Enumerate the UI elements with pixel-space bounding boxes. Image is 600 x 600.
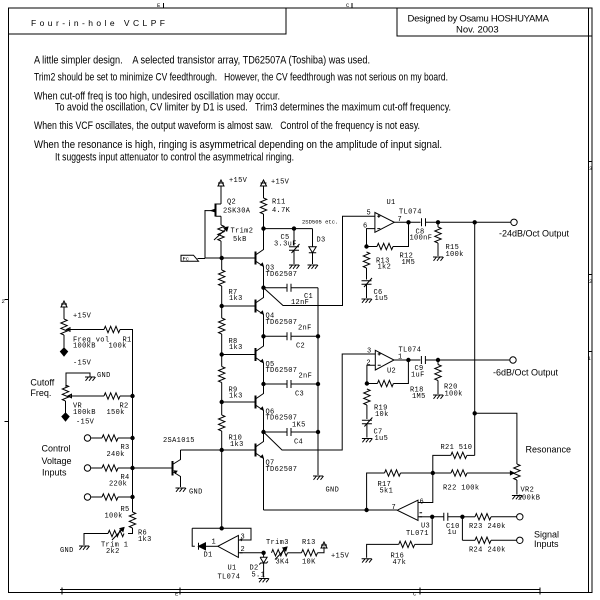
node bias3 / wire to Q5 base — [221, 334, 223, 367]
wire U2 inv stub — [367, 365, 375, 383]
svg-text:TL074: TL074 — [218, 574, 241, 582]
svg-text:4.7K: 4.7K — [272, 207, 291, 215]
border zone ticks right — [589, 162, 593, 352]
CV input jack 3 — [84, 494, 90, 500]
ground pot2 — [85, 377, 96, 381]
resistor R17 5k1 feedback — [401, 472, 433, 474]
wire bias top to C5 and D3 — [264, 228, 313, 230]
svg-text:1k3: 1k3 — [230, 441, 244, 449]
node ladder stage2 — [262, 335, 265, 338]
resistor R8 1k3 — [219, 318, 225, 334]
svg-text:3K4: 3K4 — [276, 559, 290, 567]
svg-text:VR2: VR2 — [521, 487, 535, 495]
resistor R13 10K — [302, 550, 318, 556]
wire tap -24dB to U1 — [264, 216, 375, 305]
node CV limit — [262, 551, 265, 554]
wire Trim1 to ground — [84, 534, 108, 546]
svg-text:1u5: 1u5 — [375, 295, 389, 303]
resistor R16 47k — [415, 543, 433, 545]
border zone ticks bottom — [62, 588, 540, 595]
svg-text:5.1: 5.1 — [252, 572, 266, 580]
svg-text:GND: GND — [326, 487, 340, 495]
wire cap common rail — [317, 288, 319, 475]
svg-text:C2: C2 — [296, 343, 305, 351]
resistor R10 1k3 — [219, 415, 225, 431]
node U3 inv input — [431, 471, 434, 474]
svg-text:Trim2 should be set to minimiz: Trim2 should be set to minimize CV feedt… — [34, 72, 448, 84]
wire Trim3 to R13 — [288, 552, 302, 554]
svg-text:-15V: -15V — [76, 419, 95, 427]
svg-text:1: 1 — [398, 354, 403, 362]
resistor R20 100k — [437, 360, 439, 365]
wire R2 to CV rail — [120, 395, 133, 397]
wire U3 inv stub — [418, 516, 432, 518]
capacitor C8 100nF — [422, 218, 439, 226]
svg-text:A little simpler design. A: A little simpler design. A selected tran… — [34, 55, 370, 67]
transistor Q1 2SA1015 — [173, 450, 181, 487]
wire Trim2 to Fc node — [220, 241, 222, 258]
node ladder stage4 — [262, 430, 265, 433]
ground C5 — [289, 265, 300, 269]
svg-text:7: 7 — [398, 216, 403, 224]
resistor R4 220k — [102, 465, 118, 471]
wire -24dB output line — [438, 221, 511, 223]
wire pot1 wiper to R1 — [70, 329, 104, 331]
svg-text:2nF: 2nF — [298, 325, 312, 333]
svg-text:Inputs: Inputs — [534, 539, 559, 549]
trimmer Trim3 — [272, 547, 288, 560]
wire jack2 to R4 — [91, 467, 102, 469]
wire ladder bottom to U3 output — [264, 509, 398, 511]
potentiometer Freq vol 100kB — [61, 319, 73, 335]
svg-text:U2: U2 — [387, 368, 396, 376]
wire node down to R21 — [474, 413, 476, 455]
diode D1 — [199, 543, 218, 550]
svg-text:When this VCF oscillates, the: When this VCF oscillates, the output wav… — [34, 120, 420, 132]
power +15V Q2 — [218, 180, 224, 191]
resistor R7 1k3 — [219, 270, 225, 286]
resistor R13 1k2 — [363, 252, 369, 268]
resistor R18 1M5 feedback — [367, 383, 378, 385]
wire R11 to bias top node — [263, 214, 265, 229]
svg-text:C4: C4 — [294, 439, 303, 447]
capacitor C10 1u — [432, 513, 462, 521]
wire CV summing rail — [132, 396, 134, 512]
wire VR2 bottom to ground — [516, 480, 518, 495]
svg-text:47k: 47k — [393, 559, 407, 567]
svg-text:1k3: 1k3 — [229, 295, 243, 303]
wire Q2 source to Trim2 — [220, 216, 222, 225]
svg-text:R23: R23 — [469, 523, 483, 531]
svg-text:+15V: +15V — [271, 179, 290, 187]
node signal mix — [431, 515, 434, 518]
transistor Q7 TD62507 — [256, 432, 264, 510]
wire Fc node to Q3 base — [222, 257, 256, 259]
trimmer Trim2 5kB — [214, 225, 228, 241]
wire R3 to rail — [118, 437, 133, 439]
svg-text:2: 2 — [241, 546, 246, 554]
resistor R1 100k — [104, 326, 120, 332]
svg-text:240k: 240k — [488, 547, 506, 555]
svg-text:3: 3 — [589, 165, 592, 172]
wire rail to Q1 base — [133, 467, 172, 469]
power +15V pot1 — [61, 301, 67, 312]
svg-text:100kB: 100kB — [73, 409, 96, 417]
svg-text:Q2: Q2 — [227, 199, 236, 207]
ground Trim1 — [79, 546, 90, 550]
potentiometer VR 100kB (Cutoff Freq) — [62, 385, 74, 401]
border zone tick top C — [351, 3, 353, 8]
jack -24dB output — [511, 219, 517, 225]
svg-text:Designed by Osamu HOSHUYAMA: Designed by Osamu HOSHUYAMA — [408, 13, 550, 24]
svg-text:1u5: 1u5 — [375, 435, 389, 443]
op-amp U3 TL071 resonance mixer — [397, 500, 422, 520]
resistor R3 240k — [102, 435, 118, 441]
wire node to VR2 top — [475, 413, 517, 464]
resistor R5 100k — [102, 494, 118, 500]
svg-text:2: 2 — [2, 298, 5, 305]
svg-text:100k: 100k — [446, 251, 464, 259]
svg-text:1k2: 1k2 — [378, 264, 392, 272]
svg-text:-15V: -15V — [73, 360, 92, 368]
ground R16 — [362, 559, 373, 563]
svg-text:100kB: 100kB — [518, 495, 541, 503]
jack signal input 2 — [517, 537, 523, 543]
svg-text:6: 6 — [420, 499, 425, 507]
svg-text:100k: 100k — [109, 343, 127, 351]
svg-text:R21 510: R21 510 — [441, 444, 473, 452]
ground VR2 — [512, 496, 523, 500]
svg-text:-24dB/Oct Output: -24dB/Oct Output — [499, 229, 570, 239]
svg-text:7: 7 — [392, 504, 397, 512]
svg-text:2nF: 2nF — [299, 373, 313, 381]
wire U2 output — [394, 359, 420, 361]
svg-text:100k: 100k — [445, 391, 463, 399]
svg-text:12nF: 12nF — [291, 299, 309, 307]
designed-by box — [397, 8, 592, 36]
resistor R22 100k wiper — [467, 472, 509, 474]
svg-text:Resonance: Resonance — [526, 445, 572, 455]
capacitor C5 3.3uF — [293, 229, 295, 246]
node resonance branch — [473, 412, 476, 415]
node bias2 / wire to Q4 base — [221, 286, 223, 318]
svg-text:TD62507: TD62507 — [266, 319, 298, 327]
wire pot2 wiper to R2 — [72, 395, 105, 397]
node CV loop top — [220, 527, 223, 530]
svg-text:5kB: 5kB — [233, 236, 247, 244]
svg-text:10k: 10k — [375, 411, 389, 419]
svg-text:+15V: +15V — [331, 553, 350, 561]
svg-text:10K: 10K — [302, 559, 316, 567]
svg-text:Signal: Signal — [534, 530, 559, 540]
svg-text:C3: C3 — [295, 391, 304, 399]
wire bias node down to CV opamp loop — [221, 450, 223, 528]
wire R4 to rail — [118, 467, 133, 469]
svg-text:U1: U1 — [387, 199, 396, 207]
wire R5 to rail — [118, 496, 133, 498]
wire Q2 gate down to Fc node — [204, 210, 206, 258]
svg-text:U1: U1 — [228, 565, 237, 573]
svg-text:Freq.: Freq. — [30, 388, 51, 398]
svg-text:Fc: Fc — [183, 255, 190, 262]
transistor Q3 TD62507 — [256, 229, 264, 288]
trimmer Trim1 2k2 — [108, 528, 124, 541]
svg-text:1M5: 1M5 — [402, 259, 416, 267]
svg-text:TD62507: TD62507 — [266, 271, 298, 279]
svg-text:100nF: 100nF — [410, 235, 433, 243]
svg-text:Inputs: Inputs — [42, 468, 67, 478]
wire Fc node to R7 — [221, 258, 223, 270]
svg-text:Trim2: Trim2 — [231, 228, 254, 236]
wire R13 to +15V — [318, 547, 325, 553]
border zone ticks left — [5, 300, 9, 422]
resistor R2 150k — [104, 393, 120, 399]
resistor R24 240k — [462, 539, 475, 541]
ground C6 — [362, 299, 373, 303]
capacitor C3 2nF — [264, 380, 319, 388]
svg-text:To avoid the oscillation, CV l: To avoid the oscillation, CV limiter by … — [55, 102, 451, 114]
wire U1 output — [394, 221, 420, 223]
svg-text:R22 100k: R22 100k — [443, 485, 479, 493]
svg-text:5: 5 — [367, 210, 372, 218]
capacitor C1 12nF — [264, 284, 319, 292]
capacitor C6 1u5 — [362, 278, 373, 287]
ground D3 — [308, 265, 319, 269]
svg-text:1M5: 1M5 — [412, 393, 426, 401]
title box — [9, 9, 286, 35]
resistor R15 100k — [437, 222, 439, 227]
power -15V pot2 — [65, 401, 67, 412]
svg-text:GND: GND — [97, 372, 111, 380]
svg-text:2SA1015: 2SA1015 — [163, 437, 195, 445]
node signal split — [461, 515, 464, 518]
svg-text:R11: R11 — [272, 199, 286, 207]
svg-text:D1: D1 — [204, 552, 213, 560]
svg-text:3.3uF: 3.3uF — [274, 241, 297, 249]
node Fc junction — [205, 257, 222, 259]
resistor R21 510k — [467, 454, 475, 456]
node U2 feedback — [365, 382, 368, 385]
transistor Q2 2SK30A JFET — [205, 204, 222, 217]
svg-text:2SD505 etc.: 2SD505 etc. — [302, 219, 338, 226]
svg-text:3: 3 — [367, 347, 372, 355]
svg-text:R13: R13 — [302, 539, 316, 547]
transistor Q4 TD62507 — [256, 288, 264, 337]
border inner bottom line — [60, 589, 540, 591]
resistor R12 1M5 feedback — [367, 246, 378, 248]
wire Q1 collector to bias chain — [181, 449, 222, 451]
svg-text:TL071: TL071 — [406, 530, 429, 538]
resistor R6 1k3 — [129, 512, 135, 528]
transistor Q6 TD62507 — [256, 384, 264, 432]
border zone tick top E — [163, 3, 165, 8]
wire U1 inv stub — [367, 229, 375, 247]
svg-text:100kB: 100kB — [73, 343, 96, 351]
svg-text:1: 1 — [212, 539, 217, 547]
svg-text:3: 3 — [241, 534, 246, 542]
svg-text:Four-in-hole VCLPF: Four-in-hole VCLPF — [31, 18, 165, 28]
svg-text:TL074: TL074 — [399, 209, 422, 217]
node ladder stage3 — [262, 382, 265, 385]
resistor R9 1k3 — [219, 367, 225, 383]
wire -24dB to resonance vertical — [474, 222, 476, 413]
op-amp U1 TL074 (-24dB buffer) — [375, 213, 394, 233]
svg-text:When the resonance is high, ri: When the resonance is high, ringing is a… — [34, 139, 442, 151]
transistor Q5 TD62507 — [256, 336, 264, 384]
border inner right line — [588, 8, 590, 593]
node U3 output feedback — [365, 508, 368, 511]
CV input jack 2 — [84, 465, 90, 471]
capacitor C2 2nF — [264, 332, 319, 340]
svg-text:1uF: 1uF — [411, 372, 425, 380]
wire tap -6dB to U2 — [264, 354, 376, 450]
wire to R24 — [461, 517, 463, 541]
ground R15 — [433, 257, 444, 261]
svg-text:220k: 220k — [109, 480, 127, 488]
svg-text:R24: R24 — [469, 547, 483, 555]
svg-text:Voltage: Voltage — [42, 456, 72, 466]
CV input jack 1 — [84, 435, 90, 441]
svg-text:1u: 1u — [448, 529, 457, 537]
svg-text:2: 2 — [589, 278, 592, 285]
svg-text:1k3: 1k3 — [138, 536, 152, 544]
zener D2 5.1V — [263, 553, 265, 558]
svg-text:Trim3: Trim3 — [266, 539, 289, 547]
svg-text:GND: GND — [189, 489, 203, 497]
wire U3 inv node down to R16 — [431, 517, 433, 545]
svg-text:+15V: +15V — [73, 313, 92, 321]
capacitor C9 1uF — [421, 356, 438, 364]
svg-text:TD62507: TD62507 — [266, 367, 298, 375]
ground D2 — [259, 579, 270, 583]
resistor R23 240k — [462, 516, 475, 518]
wire U4 inv to node — [238, 552, 263, 554]
node C8 out — [436, 221, 439, 224]
power +15V R11 — [261, 180, 267, 191]
wire U3 noninv stub up — [418, 473, 433, 503]
svg-text:It suggests input attenuator t: It suggests input attenuator to control … — [55, 152, 294, 164]
potentiometer VR2 100kB resonance — [509, 464, 520, 480]
svg-text:150k: 150k — [107, 409, 125, 417]
svg-text:1k3: 1k3 — [229, 344, 243, 352]
svg-text:D3: D3 — [317, 237, 326, 245]
svg-text:TD62507: TD62507 — [266, 466, 298, 474]
jack -6dB output — [510, 357, 516, 363]
ground C7 — [362, 439, 373, 443]
node cap rail junctions — [316, 335, 319, 338]
wire jack1 to R3 — [91, 437, 102, 439]
svg-text:240k: 240k — [107, 451, 125, 459]
svg-text:Nov. 2003: Nov. 2003 — [456, 24, 499, 35]
wire jack3 to R5 — [91, 496, 102, 498]
node bias top — [262, 227, 265, 230]
svg-text:+15V: +15V — [229, 177, 248, 185]
svg-text:1K5: 1K5 — [292, 422, 306, 430]
node C9 out — [436, 358, 439, 361]
capacitor C7 1u5 — [362, 418, 373, 427]
svg-text:100k: 100k — [105, 513, 123, 521]
node rail junctions — [131, 394, 134, 397]
wire pot2 top to GND — [66, 373, 90, 387]
power +15V R13 — [321, 542, 327, 553]
diode D3 — [312, 229, 314, 247]
wire CV loop top — [192, 528, 251, 540]
wire R1 to CV rail — [120, 330, 133, 397]
node bias5 / wire to Q7 base — [221, 431, 223, 450]
resistor R11 4.7K — [260, 198, 266, 214]
svg-text:1k3: 1k3 — [229, 393, 243, 401]
resistor R19 10k — [364, 389, 370, 405]
svg-text:GND: GND — [60, 547, 74, 555]
wire loop left down — [192, 528, 195, 546]
svg-text:2k2: 2k2 — [106, 548, 120, 556]
node U1 feedback — [365, 245, 368, 248]
wire -6dB output line — [438, 359, 510, 361]
ground R20 — [433, 395, 444, 399]
capacitor C4 — [264, 428, 319, 436]
svg-text:2SK30A: 2SK30A — [223, 208, 251, 216]
op-amp U2 TL074 (-6dB buffer) — [375, 350, 394, 370]
svg-text:Control: Control — [42, 444, 71, 454]
svg-text:6: 6 — [363, 223, 368, 231]
svg-text:2: 2 — [366, 360, 371, 368]
node ladder stage1 — [262, 286, 265, 289]
net flag Fc — [181, 255, 205, 261]
ground Q1 emitter — [176, 488, 187, 492]
svg-text:-6dB/Oct Output: -6dB/Oct Output — [493, 368, 559, 378]
op-amp U1 TL074 CV limiter — [218, 535, 243, 557]
jack signal input 1 — [517, 514, 523, 520]
power -15V pot1 — [63, 335, 65, 347]
svg-text:Cutoff: Cutoff — [30, 378, 54, 388]
svg-text:240k: 240k — [488, 523, 506, 531]
wire R6 to Trim1 — [128, 528, 133, 534]
ground cap rail — [313, 476, 324, 480]
svg-text:5k1: 5k1 — [380, 488, 394, 496]
node bias4 / wire to Q6 base — [221, 383, 223, 416]
